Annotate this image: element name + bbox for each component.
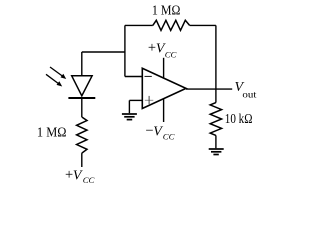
wire: non-inverting input to ground [128,100,130,113]
light arrow 1 [50,67,66,79]
svg-text:out: out [242,90,256,100]
wire: load resistor to ground [215,135,217,148]
svg-text:1 MΩ: 1 MΩ [37,125,67,140]
wire: photodiode anode drop [81,52,83,76]
svg-text:V: V [153,124,163,139]
svg-text:V: V [73,169,83,184]
resistor 10 kΩ zigzag [210,103,221,136]
svg-text:+: + [148,40,156,56]
wire: output [186,88,232,90]
wire: -Vcc stub [163,99,165,123]
photodiode D1 triangle [72,76,92,96]
wire: photodiode top horizontal to node [82,51,125,53]
svg-text:CC: CC [83,175,95,185]
op-amp non-inverting input marker [145,99,154,101]
resistor 1 MΩ feedback zigzag [153,20,190,30]
wire: +Vcc stub [163,58,165,78]
svg-text:10 kΩ: 10 kΩ [225,112,253,127]
wire: inverting input [125,76,142,78]
ground at output load [209,149,224,155]
wire: diode to bias resistor [81,98,83,117]
svg-text:CC: CC [165,49,177,59]
light arrow 2 [46,74,62,86]
op-amp U1 body [142,68,186,108]
svg-text:1 MΩ: 1 MΩ [152,3,181,18]
wire: bias resistor to +Vcc [81,153,83,167]
wire: feedback top right segment [190,24,216,26]
wire: feedback loop left vertical [124,25,126,76]
op-amp inverting input marker [145,75,152,77]
ground at op-amp + input [122,114,137,120]
resistor 1 MΩ bias zigzag [77,117,87,153]
wire: feedback top left segment [125,24,153,26]
photodiode D1 cathode bar [68,97,95,99]
svg-text:CC: CC [163,131,175,141]
wire: non-inverting input [129,99,142,101]
wire: feedback right vertical down to load [215,25,217,102]
